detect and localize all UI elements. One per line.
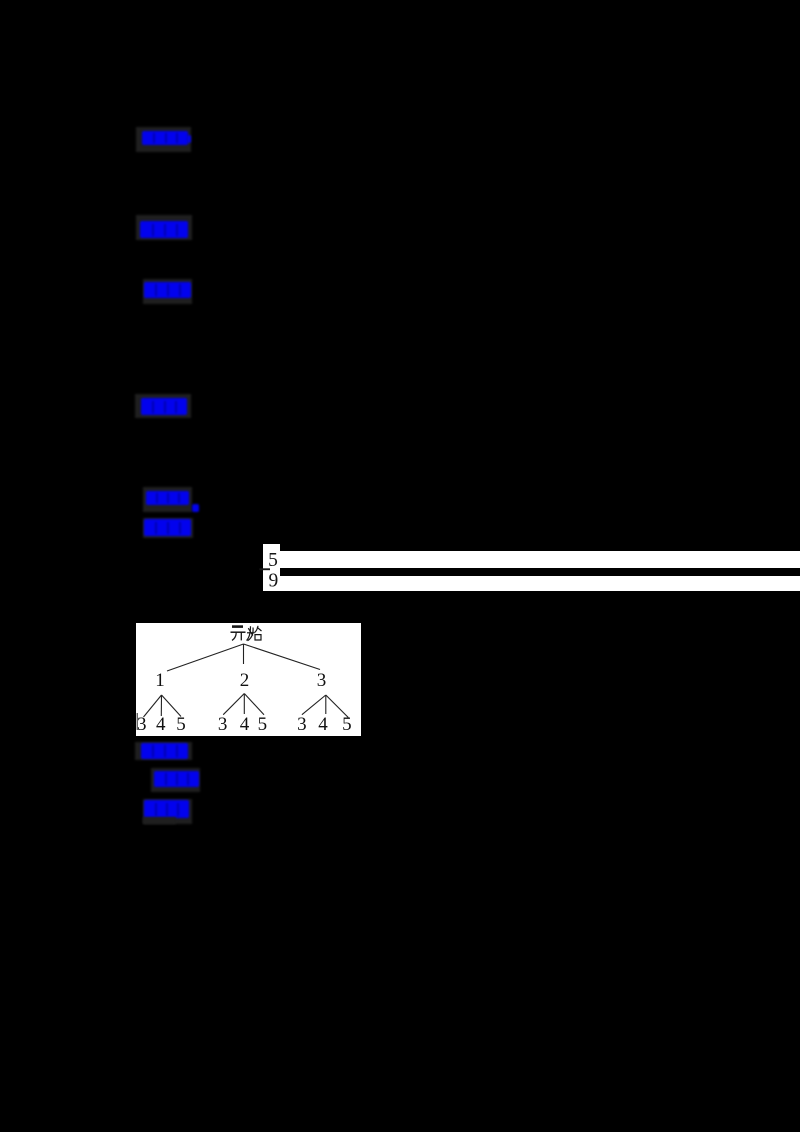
始 — [247, 626, 262, 641]
level-1 branches — [167, 644, 320, 671]
answer tag 8 blue text — [154, 771, 199, 787]
answer tag 3 blue text — [144, 282, 191, 298]
answer tag 1 artifact box — [136, 127, 191, 152]
fan under 3 — [302, 695, 348, 718]
fan under 2 — [223, 694, 264, 715]
answer tag 9 blue text — [144, 800, 189, 818]
answer tag 9 artifact box — [143, 799, 192, 824]
svg-text:4: 4 — [156, 714, 166, 735]
answer tag 4 blue text — [141, 398, 187, 415]
tree diagram — [136, 623, 361, 736]
开 — [232, 625, 243, 628]
svg-text:4: 4 — [240, 714, 250, 735]
label 开始 — [231, 626, 262, 641]
svg-text:2: 2 — [240, 670, 250, 691]
svg-text:5: 5 — [176, 714, 186, 735]
fraction 5/9 — [258, 543, 286, 593]
svg-text:5: 5 — [342, 714, 352, 735]
white stripe right of denominator — [280, 576, 800, 591]
answer tag 7 artifact box — [135, 742, 192, 760]
answer tag 1 blue text — [142, 131, 188, 145]
answer tag 5 artifact box — [143, 487, 192, 512]
answer tag 2 blue text — [140, 221, 188, 238]
leaf labels — [137, 714, 352, 735]
svg-text:9: 9 — [269, 571, 279, 592]
fraction image white background — [263, 544, 280, 591]
comma after tag 5 — [192, 504, 199, 512]
fan under 1 — [144, 695, 182, 717]
clipped stroke at box left edge — [136, 713, 138, 730]
answer tag 5 blue text — [146, 491, 189, 505]
svg-text:5: 5 — [258, 714, 268, 735]
answer tag 6 artifact box — [143, 518, 193, 538]
svg-text:3: 3 — [317, 670, 327, 691]
svg-text:3: 3 — [137, 714, 147, 735]
answer tag 2 artifact box — [136, 215, 192, 240]
answer tag 6 blue text — [144, 519, 191, 536]
answer tag 8 artifact box — [151, 768, 200, 792]
white stripe right of numerator — [280, 551, 800, 568]
answer tag 4 artifact box — [135, 394, 191, 418]
svg-text:3: 3 — [218, 714, 228, 735]
svg-text:1: 1 — [155, 670, 165, 691]
answer tag 7 blue text — [141, 743, 188, 759]
svg-text:3: 3 — [297, 714, 307, 735]
answer tag 3 artifact box — [143, 279, 192, 304]
svg-text:5: 5 — [268, 550, 278, 571]
svg-text:4: 4 — [318, 714, 328, 735]
labels 1 2 3 — [155, 670, 326, 691]
